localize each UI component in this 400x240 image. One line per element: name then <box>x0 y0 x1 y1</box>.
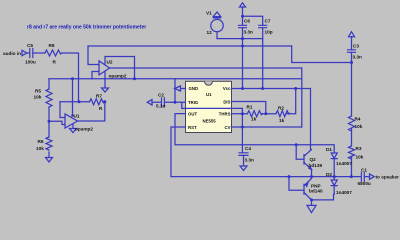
svg-text:100u: 100u <box>25 60 36 65</box>
svg-text:OUT: OUT <box>188 112 197 117</box>
svg-text:12: 12 <box>207 30 213 35</box>
svg-text:R6: R6 <box>38 139 44 144</box>
svg-text:C3: C3 <box>353 44 359 49</box>
svg-text:3.3n: 3.3n <box>245 158 255 163</box>
svg-text:TRIG: TRIG <box>188 100 199 105</box>
svg-text:CV: CV <box>225 125 231 130</box>
svg-text:C5: C5 <box>27 43 33 48</box>
svg-text:DIS: DIS <box>223 100 230 105</box>
svg-text:opamp2: opamp2 <box>75 127 93 132</box>
svg-text:R5: R5 <box>35 89 41 94</box>
svg-text:R2: R2 <box>278 106 284 111</box>
svg-text:U2: U2 <box>107 60 113 65</box>
svg-text:Q2: Q2 <box>310 157 317 162</box>
svg-text:opamp2: opamp2 <box>109 74 127 79</box>
svg-text:NE555: NE555 <box>203 119 217 124</box>
svg-text:bd139: bd139 <box>309 163 323 168</box>
svg-text:10k: 10k <box>355 124 363 129</box>
svg-text:10k: 10k <box>36 146 44 151</box>
svg-text:C7: C7 <box>265 19 271 24</box>
svg-text:3.3n: 3.3n <box>244 30 254 35</box>
svg-text:D1: D1 <box>326 147 332 152</box>
svg-text:3.3n: 3.3n <box>353 55 363 60</box>
svg-text:U1: U1 <box>74 114 80 119</box>
svg-text:THRS: THRS <box>219 112 231 117</box>
svg-text:R7: R7 <box>96 94 102 99</box>
svg-text:10k: 10k <box>356 154 364 159</box>
svg-text:RST: RST <box>188 125 197 130</box>
svg-text:C2: C2 <box>158 93 164 98</box>
svg-text:r8 and r7 are really one 50k t: r8 and r7 are really one 50k trimmer pot… <box>27 25 146 31</box>
svg-text:audio in: audio in <box>3 51 21 56</box>
svg-text:C6: C6 <box>244 19 250 24</box>
svg-text:R8: R8 <box>49 43 55 48</box>
svg-text:R1: R1 <box>247 105 253 110</box>
svg-text:bd140: bd140 <box>309 189 323 194</box>
svg-text:1k: 1k <box>279 118 285 123</box>
svg-text:C4: C4 <box>245 146 251 151</box>
svg-text:10k: 10k <box>34 95 42 100</box>
svg-text:D2: D2 <box>326 172 332 177</box>
svg-text:C1: C1 <box>361 168 367 173</box>
svg-text:1n4007: 1n4007 <box>336 161 352 166</box>
svg-text:to speaker: to speaker <box>376 175 400 180</box>
svg-text:10p: 10p <box>265 30 273 35</box>
svg-text:1n4007: 1n4007 <box>336 190 352 195</box>
svg-text:R4: R4 <box>355 117 361 122</box>
svg-text:6800u: 6800u <box>358 181 371 186</box>
svg-text:R3: R3 <box>356 146 362 151</box>
svg-text:Vcc: Vcc <box>223 86 231 91</box>
svg-text:U1: U1 <box>206 92 212 97</box>
svg-text:5.1n: 5.1n <box>156 104 166 109</box>
svg-text:V1: V1 <box>206 11 212 16</box>
svg-text:GND: GND <box>189 86 199 91</box>
svg-text:1k: 1k <box>251 117 257 122</box>
